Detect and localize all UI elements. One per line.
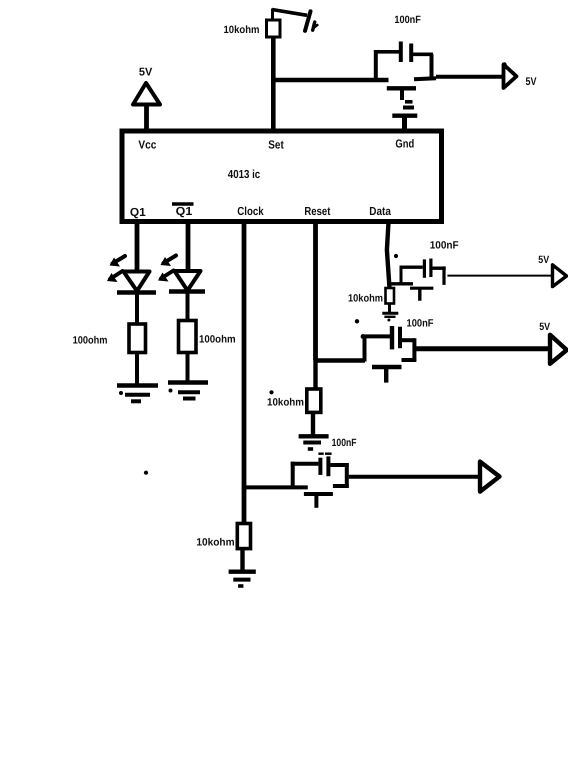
resistor R5 10kohm (Reset) bbox=[307, 389, 321, 412]
ground G8 (under C4) bbox=[304, 494, 333, 508]
ground G6 (under C3) bbox=[372, 367, 402, 383]
svg-text:4013 ic: 4013 ic bbox=[228, 168, 261, 181]
svg-text:Vcc: Vcc bbox=[138, 138, 156, 151]
node dot above label R5 bbox=[269, 390, 273, 394]
resistor R4 10kohm (Data) bbox=[386, 288, 395, 304]
LED D1 arrows bbox=[107, 256, 125, 282]
arrow (Clock out) bbox=[480, 462, 500, 492]
wire Clock vertical bbox=[242, 222, 247, 524]
capacitor C4 100nF (Clock) bbox=[291, 456, 349, 488]
resistor R6 10kohm (Clock) bbox=[237, 524, 250, 549]
node dot near C3 bbox=[355, 319, 359, 323]
wire C4 to arrow bbox=[349, 475, 480, 479]
svg-text:10kohm: 10kohm bbox=[267, 397, 304, 409]
ground G1 (between C1 and Gnd pin) bbox=[387, 88, 418, 131]
svg-text:10kohm: 10kohm bbox=[224, 24, 260, 36]
node dot near Data bbox=[394, 254, 398, 258]
capacitor C2 100nF (Data) bbox=[391, 259, 446, 285]
resistor R3 100ohm bbox=[179, 321, 197, 353]
wire Reset horizontal bbox=[316, 358, 366, 363]
5V arrow (Reset) bbox=[550, 335, 567, 364]
5V arrow top right bbox=[504, 65, 517, 89]
svg-text:100nF: 100nF bbox=[407, 318, 434, 330]
svg-text:Reset: Reset bbox=[304, 205, 330, 218]
svg-text:100nF: 100nF bbox=[332, 437, 357, 449]
svg-text:Gnd: Gnd bbox=[395, 138, 414, 151]
LED D1 bbox=[117, 272, 156, 293]
op IC U1 4013 box bbox=[122, 131, 442, 222]
capacitor C3 100nF (Reset) bbox=[362, 326, 416, 362]
wire Set junction horizontal left bbox=[271, 78, 389, 83]
wire R6 to ground bbox=[240, 549, 244, 570]
svg-text:10kohm: 10kohm bbox=[196, 537, 234, 549]
wire LED2 to R3 bbox=[186, 292, 190, 321]
svg-text:5V: 5V bbox=[539, 321, 550, 333]
svg-text:100ohm: 100ohm bbox=[73, 335, 108, 347]
ground G7 bbox=[299, 436, 329, 449]
5V supply symbol (Vcc) bbox=[133, 83, 160, 131]
svg-text:Clock: Clock bbox=[237, 205, 264, 218]
wire LED1 to R2 bbox=[135, 293, 139, 325]
svg-text:100nF: 100nF bbox=[430, 240, 459, 252]
wire R5 to ground bbox=[311, 412, 315, 434]
capacitor C1 100nF bbox=[374, 42, 433, 82]
svg-text:100nF: 100nF bbox=[394, 14, 421, 26]
resistor R2 100ohm bbox=[129, 324, 146, 353]
wire junction horizontal right bbox=[414, 78, 436, 79]
svg-text:5V: 5V bbox=[526, 76, 538, 88]
wire Q1 to LED1 bbox=[135, 222, 140, 271]
Q1-bar overline bbox=[172, 202, 194, 205]
ground G9 bbox=[229, 572, 256, 586]
node dot left of clock junction bbox=[144, 471, 148, 475]
ground G5 (under C2) bbox=[410, 288, 433, 301]
wire C2 to 5V arrow (thin) bbox=[447, 275, 552, 277]
svg-text:Data: Data bbox=[369, 205, 391, 218]
wire Data vertical bbox=[387, 222, 390, 288]
wire R2 to ground bbox=[135, 353, 139, 385]
svg-text:Set: Set bbox=[268, 138, 284, 151]
wire R3 to ground bbox=[186, 353, 190, 382]
svg-text:Q1: Q1 bbox=[130, 206, 146, 219]
wire Q1-bar to LED2 bbox=[186, 222, 191, 271]
wire C3 to 5V arrow bbox=[416, 346, 550, 351]
wire Reset down to R5 bbox=[313, 360, 317, 389]
ground G4 bbox=[382, 313, 398, 321]
ground G2 bbox=[117, 386, 158, 402]
svg-text:10kohm: 10kohm bbox=[348, 293, 383, 305]
wire to 5V arrow top bbox=[436, 75, 503, 79]
svg-text:5V: 5V bbox=[139, 67, 153, 79]
wire Clock junction horizontal bbox=[244, 485, 308, 489]
LED D2 arrows bbox=[158, 256, 176, 282]
svg-text:5V: 5V bbox=[538, 254, 549, 266]
wire resistor R1 top stub bbox=[271, 9, 274, 21]
LED D2 bbox=[169, 271, 205, 292]
svg-text:Q1: Q1 bbox=[176, 205, 193, 218]
svg-text:100ohm: 100ohm bbox=[199, 334, 236, 346]
switch SW1 bbox=[272, 10, 317, 31]
stray dashes above C4 bbox=[318, 453, 331, 455]
wire R4 to ground bbox=[388, 304, 391, 313]
resistor R1 10kohm (Set pull-up) bbox=[267, 20, 281, 37]
wire Reset vertical bbox=[313, 222, 318, 360]
ground G3 bbox=[168, 383, 208, 399]
5V arrow (Data) bbox=[553, 265, 567, 287]
wire Set vertical bbox=[271, 37, 276, 131]
